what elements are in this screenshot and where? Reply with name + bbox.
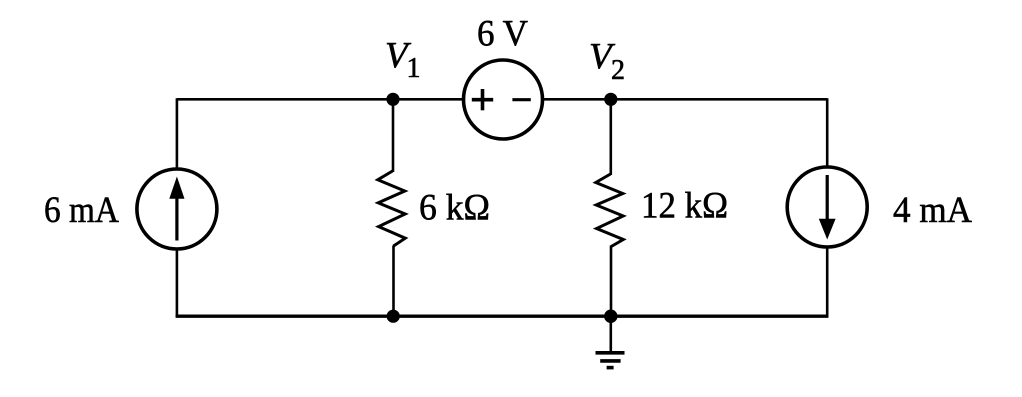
svg-text:6 V: 6 V <box>477 14 528 55</box>
svg-text:4 mA: 4 mA <box>893 190 972 231</box>
svg-text:2: 2 <box>611 55 625 86</box>
svg-text:1: 1 <box>407 53 421 84</box>
svg-text:6 kΩ: 6 kΩ <box>419 188 490 229</box>
svg-text:12 kΩ: 12 kΩ <box>641 186 728 227</box>
svg-text:6 mA: 6 mA <box>44 190 119 231</box>
